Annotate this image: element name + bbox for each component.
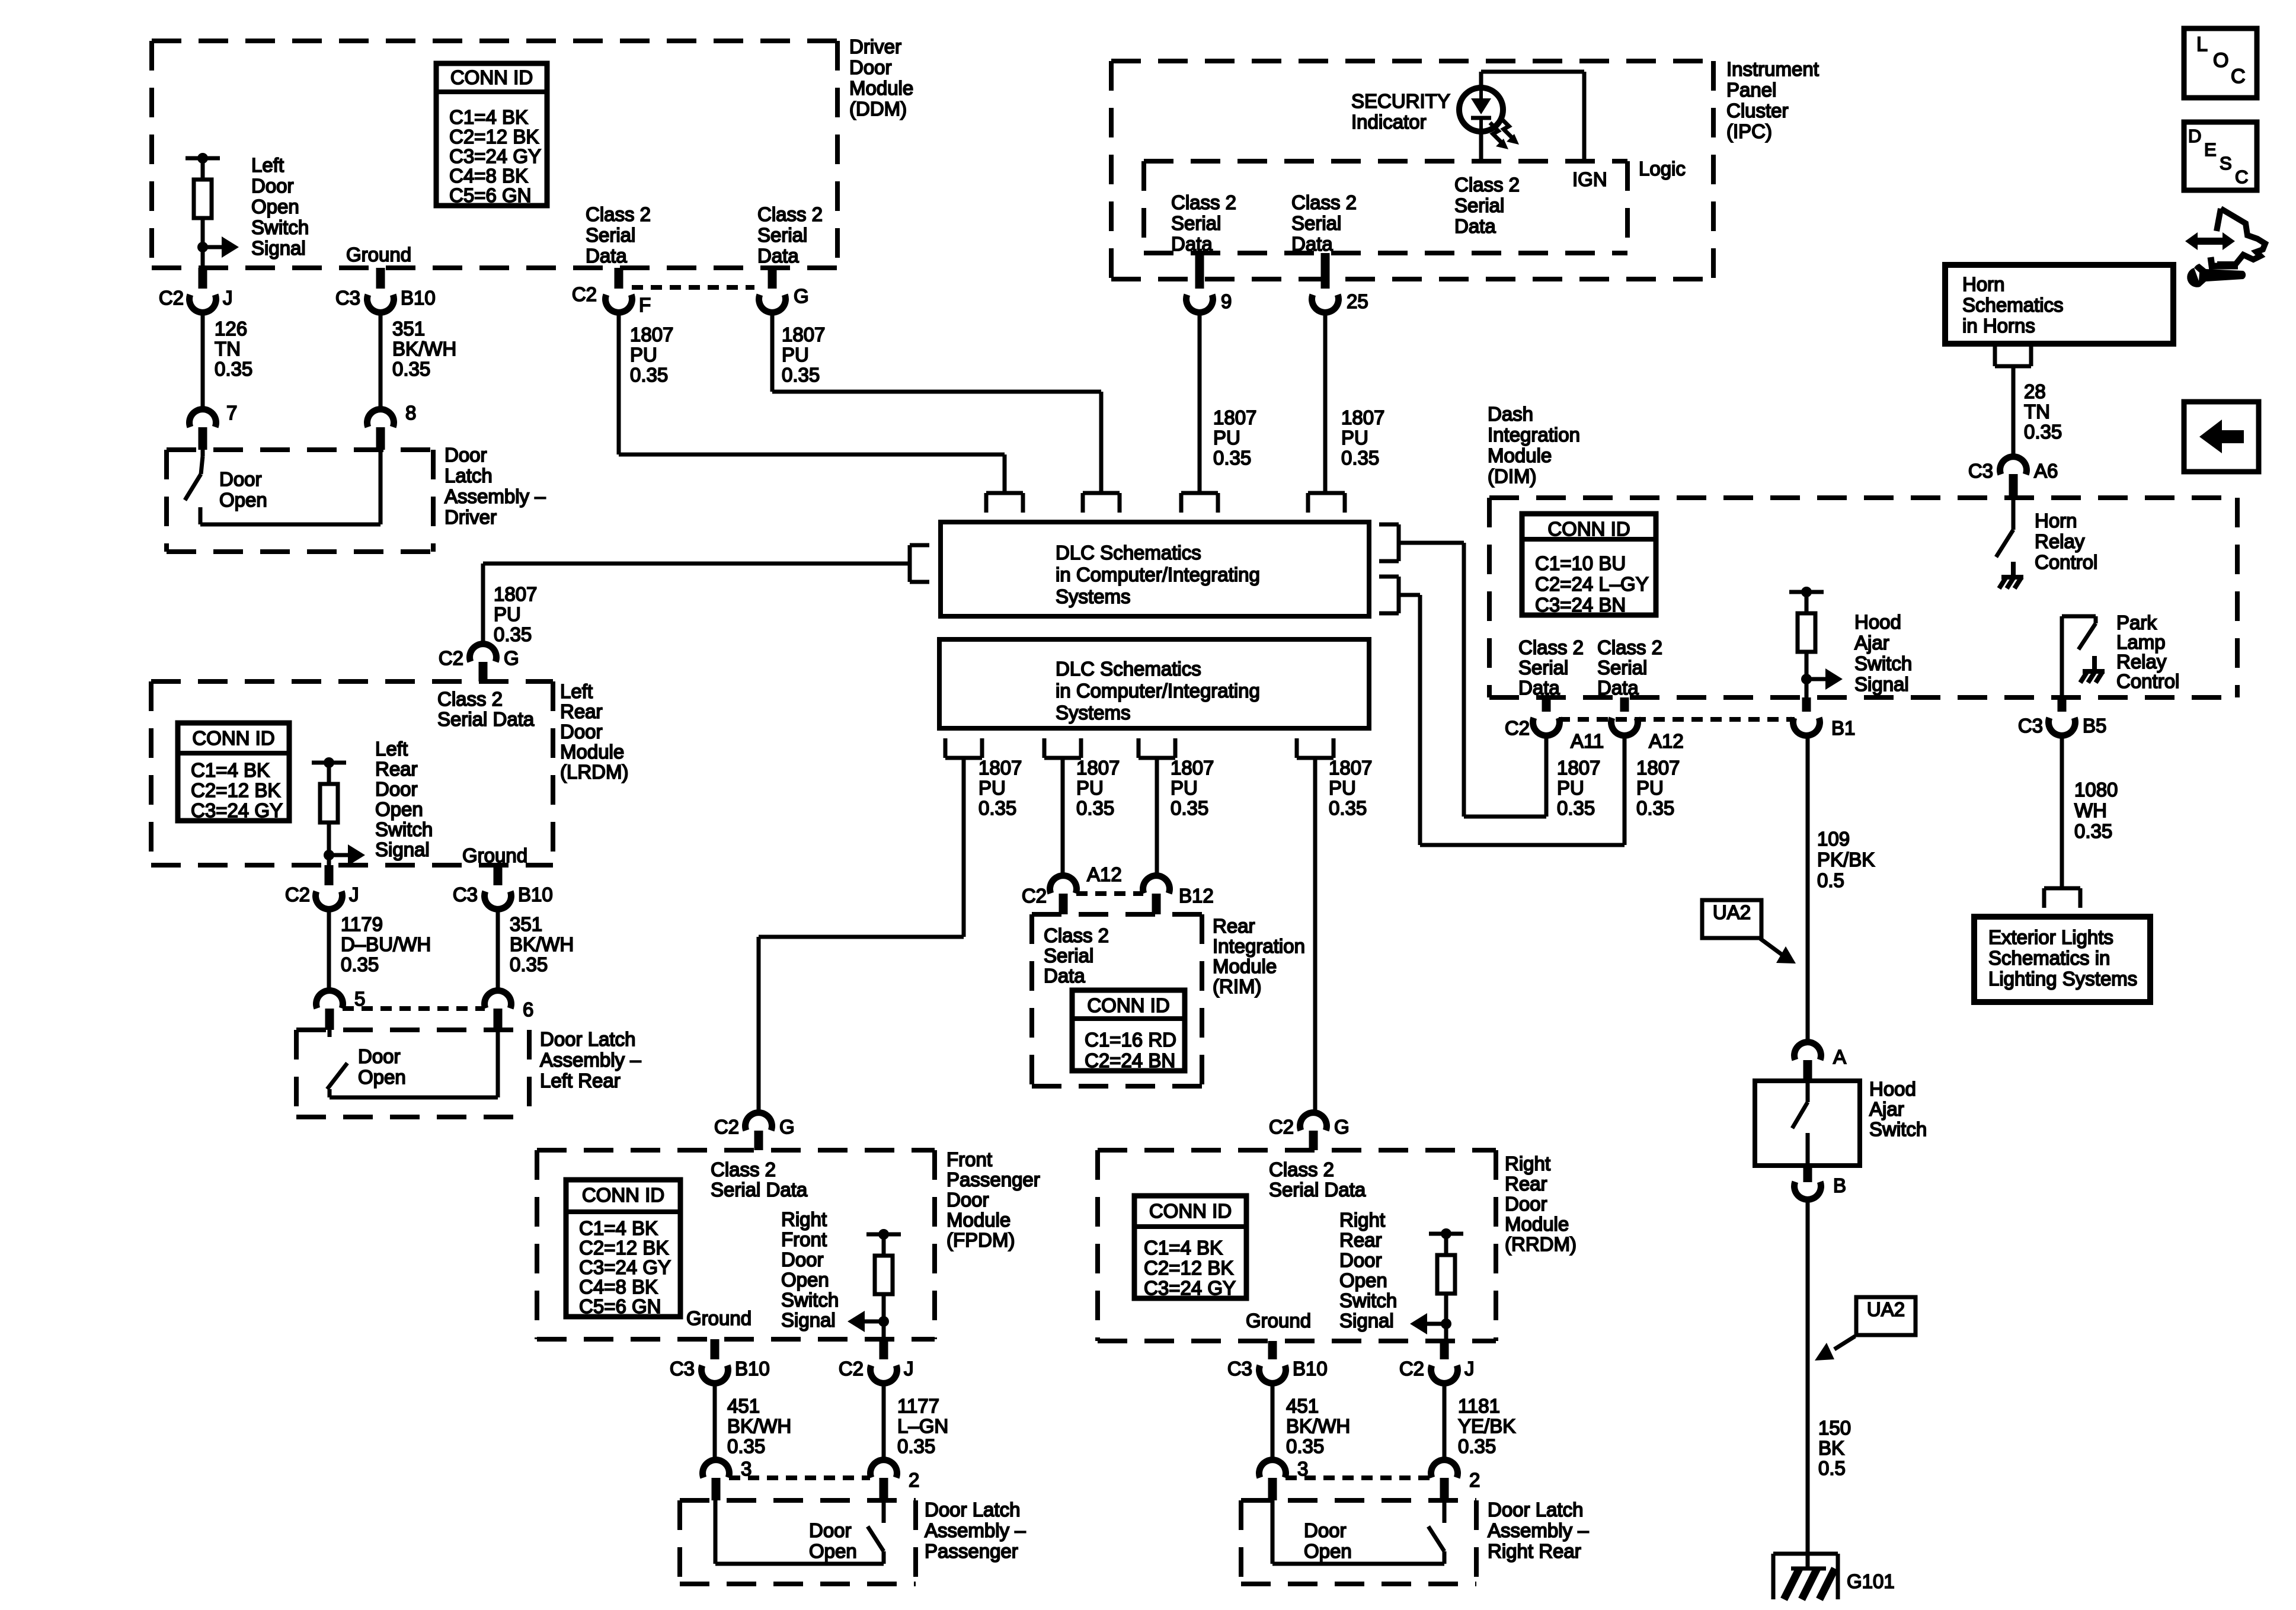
svg-text:C3=24 BN: C3=24 BN bbox=[1535, 594, 1626, 616]
svg-text:A: A bbox=[1833, 1046, 1846, 1068]
svg-text:C3: C3 bbox=[670, 1358, 695, 1379]
connector G (DDM) bbox=[759, 268, 809, 312]
wire DLC to A11 bbox=[1399, 543, 1546, 817]
svg-text:Class 2: Class 2 bbox=[1454, 174, 1520, 196]
label Park Lamp Relay Control bbox=[2116, 612, 2179, 692]
svg-text:in Horns: in Horns bbox=[1962, 315, 2035, 337]
svg-text:1181: 1181 bbox=[1458, 1395, 1500, 1417]
svg-text:Serial: Serial bbox=[1171, 212, 1221, 234]
svg-text:Open: Open bbox=[375, 798, 423, 820]
svg-text:in Computer/Integrating: in Computer/Integrating bbox=[1056, 680, 1260, 702]
svg-text:Door: Door bbox=[849, 56, 892, 78]
svg-text:Left: Left bbox=[375, 738, 408, 760]
connector C3 B10 (RRDM) bbox=[1227, 1341, 1328, 1383]
label Hood Ajar Switch bbox=[1869, 1078, 1927, 1140]
svg-text:Integration: Integration bbox=[1488, 424, 1580, 446]
DLC box upper bbox=[941, 522, 1369, 616]
svg-text:Panel: Panel bbox=[1726, 79, 1776, 101]
ground G101 bbox=[1773, 1554, 1838, 1599]
resistor left rear door open switch bbox=[312, 757, 346, 855]
label 1807 PU 0.35 (pinD) bbox=[1329, 757, 1372, 819]
svg-text:Integration: Integration bbox=[1213, 935, 1305, 957]
wire 351 BK/WH LRDM bbox=[496, 909, 500, 991]
svg-text:0.35: 0.35 bbox=[215, 358, 252, 380]
svg-text:Switch: Switch bbox=[781, 1289, 839, 1311]
svg-text:C2: C2 bbox=[839, 1358, 864, 1379]
svg-text:1080: 1080 bbox=[2074, 779, 2118, 801]
svg-text:1807: 1807 bbox=[1341, 406, 1384, 428]
svg-text:Serial: Serial bbox=[1454, 194, 1504, 216]
junction + arrow hood ajar bbox=[1801, 668, 1843, 697]
svg-text:351: 351 bbox=[510, 913, 542, 935]
icon back arrow box bbox=[2184, 402, 2259, 472]
wire 150 BK bbox=[1806, 1200, 1810, 1554]
label Class 2 Serial Data DDM-G bbox=[757, 203, 823, 267]
svg-text:Hood: Hood bbox=[1869, 1078, 1916, 1100]
svg-text:PU: PU bbox=[494, 603, 521, 625]
connector C2 J (RRDM) bbox=[1399, 1341, 1475, 1383]
pin up-2 bbox=[1083, 493, 1120, 513]
label 1080 WH 0.35 bbox=[2074, 779, 2118, 842]
svg-text:S: S bbox=[2220, 153, 2232, 174]
module FPDM box bbox=[537, 1150, 935, 1339]
wire 1179 D-BU/WH bbox=[327, 909, 331, 991]
label Class 2 Serial Data RRDM bbox=[1269, 1158, 1366, 1201]
switch door open left rear bbox=[327, 1030, 498, 1097]
svg-text:B1: B1 bbox=[1831, 717, 1855, 739]
svg-text:Door: Door bbox=[445, 444, 487, 466]
svg-text:Door: Door bbox=[1339, 1249, 1382, 1271]
dotted link 3-2 RR bbox=[1285, 1475, 1431, 1480]
pin down-C bbox=[1139, 738, 1175, 758]
svg-text:Data: Data bbox=[1171, 233, 1213, 255]
svg-text:(RIM): (RIM) bbox=[1213, 975, 1261, 997]
label Door Open driver bbox=[219, 468, 267, 511]
svg-text:J: J bbox=[223, 287, 233, 309]
svg-text:C2: C2 bbox=[1505, 717, 1530, 739]
CONN ID table RRDM bbox=[1134, 1196, 1246, 1299]
connector C2 A11 (DIM) bbox=[1505, 697, 1604, 752]
wire 1807 PU from 25 bbox=[1323, 312, 1328, 493]
label Class 2 Serial Data RIM bbox=[1044, 924, 1109, 987]
svg-text:D–BU/WH: D–BU/WH bbox=[341, 933, 431, 955]
module RRDM box bbox=[1098, 1150, 1496, 1341]
svg-text:Class 2: Class 2 bbox=[1291, 191, 1357, 213]
label Hood Ajar Switch Signal bbox=[1854, 611, 1912, 695]
label 28 TN 0.35 bbox=[2024, 380, 2062, 443]
svg-text:PU: PU bbox=[978, 777, 1006, 799]
svg-text:Data: Data bbox=[1044, 965, 1085, 987]
svg-text:Right: Right bbox=[1505, 1153, 1550, 1174]
label Ground DDM bbox=[346, 244, 411, 265]
svg-text:CONN ID: CONN ID bbox=[1087, 994, 1169, 1016]
module IPC box bbox=[1111, 61, 1713, 279]
connector 2 latch RR bbox=[1431, 1460, 1480, 1500]
svg-text:Open: Open bbox=[781, 1269, 829, 1291]
label Ground RRDM bbox=[1246, 1310, 1311, 1331]
door latch assembly passenger box bbox=[680, 1500, 916, 1584]
connector C2 F bbox=[572, 268, 651, 316]
svg-text:Horn: Horn bbox=[2035, 510, 2077, 532]
svg-text:Class 2: Class 2 bbox=[1044, 924, 1109, 946]
label Class 2 Serial Data DIM-1 bbox=[1518, 636, 1584, 699]
svg-text:Open: Open bbox=[1304, 1540, 1352, 1562]
label 1807 PU 0.35 (G) bbox=[782, 324, 825, 386]
svg-text:Door: Door bbox=[375, 778, 418, 800]
svg-text:Assembly –: Assembly – bbox=[445, 485, 546, 507]
svg-text:Instrument: Instrument bbox=[1726, 58, 1819, 80]
svg-text:PU: PU bbox=[630, 344, 657, 366]
dotted link A12-B12 bbox=[1076, 891, 1143, 896]
svg-text:Passenger: Passenger bbox=[946, 1169, 1040, 1190]
svg-text:0.35: 0.35 bbox=[1557, 797, 1595, 819]
connector 9 IPC bbox=[1187, 253, 1232, 312]
wire pinD to RRDM G bbox=[1313, 758, 1318, 1112]
svg-text:Signal: Signal bbox=[1339, 1310, 1394, 1331]
svg-text:Control: Control bbox=[2116, 670, 2179, 692]
resistor right rear door open switch bbox=[1429, 1228, 1463, 1324]
wire 1807 PU below A11 bbox=[1544, 736, 1549, 817]
connector C2 J (FPDM) bbox=[839, 1339, 914, 1383]
svg-text:0.5: 0.5 bbox=[1818, 1457, 1846, 1479]
svg-text:Door Latch: Door Latch bbox=[1488, 1499, 1583, 1521]
switch door open passenger bbox=[715, 1500, 884, 1564]
connector 3 latch RR bbox=[1259, 1458, 1309, 1500]
connector C3 B10 (DDM) bbox=[335, 268, 436, 312]
dotted link 5-6 bbox=[343, 1006, 485, 1011]
svg-text:Data: Data bbox=[757, 245, 799, 267]
svg-text:0.35: 0.35 bbox=[782, 364, 820, 386]
svg-text:Right: Right bbox=[1339, 1209, 1385, 1231]
svg-text:Right Rear: Right Rear bbox=[1488, 1540, 1581, 1562]
label Ground FPDM bbox=[686, 1307, 752, 1329]
connector C3 A6 bbox=[1968, 380, 2058, 498]
svg-text:Serial: Serial bbox=[1291, 212, 1341, 234]
svg-text:C2=12 BK: C2=12 BK bbox=[191, 779, 280, 801]
wire 1181 YE/BK bbox=[1443, 1383, 1447, 1460]
CONN ID table LRDM bbox=[178, 723, 289, 821]
svg-text:C1=10 BU: C1=10 BU bbox=[1535, 552, 1626, 574]
svg-text:Class 2: Class 2 bbox=[711, 1158, 776, 1180]
svg-text:C2=24 BN: C2=24 BN bbox=[1085, 1049, 1175, 1071]
svg-text:Switch: Switch bbox=[1869, 1118, 1927, 1140]
wire LED to IGN bbox=[1481, 72, 1584, 161]
svg-text:Door: Door bbox=[358, 1045, 401, 1067]
label Instrument Panel Cluster (IPC) bbox=[1726, 58, 1819, 142]
door latch assembly driver box bbox=[167, 450, 433, 552]
svg-text:(FPDM): (FPDM) bbox=[946, 1229, 1015, 1251]
wire 451 BK/WH FPDM bbox=[713, 1383, 717, 1460]
svg-text:Rear: Rear bbox=[375, 758, 418, 780]
icon DESC box bbox=[2184, 122, 2257, 190]
svg-text:L–GN: L–GN bbox=[897, 1415, 948, 1437]
UA2 callout lower bbox=[1815, 1297, 1916, 1361]
svg-text:Door: Door bbox=[1505, 1193, 1547, 1215]
label Door Latch Assembly Left Rear bbox=[540, 1028, 641, 1092]
label Class 2 Serial Data IPC-3 bbox=[1454, 174, 1520, 237]
svg-text:Data: Data bbox=[1597, 677, 1639, 699]
label 1177 L-GN 0.35 bbox=[897, 1395, 948, 1457]
svg-text:0.35: 0.35 bbox=[978, 797, 1016, 819]
svg-text:Assembly –: Assembly – bbox=[540, 1049, 641, 1071]
svg-text:UA2: UA2 bbox=[1867, 1298, 1905, 1320]
svg-text:B10: B10 bbox=[1293, 1358, 1328, 1379]
svg-text:Rear: Rear bbox=[1213, 915, 1255, 937]
label 1807 PU 0.35 (9) bbox=[1213, 406, 1256, 469]
svg-text:1807: 1807 bbox=[494, 583, 537, 605]
svg-text:Schematics: Schematics bbox=[1962, 294, 2064, 316]
LED security indicator bbox=[1459, 88, 1503, 132]
svg-text:B10: B10 bbox=[401, 287, 436, 309]
svg-text:Serial Data: Serial Data bbox=[1269, 1179, 1366, 1201]
ground chassis park lamp bbox=[2080, 656, 2105, 683]
LED light arrows bbox=[1490, 118, 1519, 149]
svg-text:(IPC): (IPC) bbox=[1726, 120, 1772, 142]
svg-text:TN: TN bbox=[215, 338, 241, 360]
svg-text:SECURITY: SECURITY bbox=[1351, 90, 1450, 112]
svg-text:J: J bbox=[904, 1358, 914, 1379]
svg-text:Class 2: Class 2 bbox=[1269, 1158, 1334, 1180]
resistor left door open switch bbox=[186, 153, 220, 247]
svg-text:BK/WH: BK/WH bbox=[510, 933, 574, 955]
pin bracket exterior lights bbox=[2044, 888, 2080, 908]
label Door Open passenger bbox=[809, 1519, 857, 1562]
svg-text:Open: Open bbox=[809, 1540, 857, 1562]
svg-text:G: G bbox=[1334, 1116, 1350, 1138]
svg-text:1807: 1807 bbox=[1076, 757, 1120, 779]
label Class 2 Serial Data FPDM bbox=[711, 1158, 808, 1201]
label Dash Integration Module (DIM) bbox=[1488, 403, 1580, 487]
svg-text:C2=24 L–GY: C2=24 L–GY bbox=[1535, 573, 1649, 595]
svg-text:PU: PU bbox=[1341, 427, 1368, 449]
door latch assembly right rear box bbox=[1241, 1500, 1476, 1584]
svg-text:G: G bbox=[504, 647, 519, 669]
svg-text:C3: C3 bbox=[2018, 715, 2043, 737]
junction + arrow FPDM bbox=[848, 1311, 889, 1339]
resistor hood ajar switch signal bbox=[1789, 587, 1824, 679]
svg-text:Door Latch: Door Latch bbox=[925, 1499, 1020, 1521]
module DIM box bbox=[1489, 498, 2237, 697]
label G101 bbox=[1847, 1570, 1895, 1592]
svg-text:Ground: Ground bbox=[462, 844, 527, 866]
svg-text:Left Rear: Left Rear bbox=[540, 1070, 621, 1092]
label DLC Schematics upper bbox=[1056, 542, 1260, 607]
svg-text:CONN ID: CONN ID bbox=[450, 66, 533, 88]
svg-text:F: F bbox=[639, 294, 651, 316]
svg-text:Ground: Ground bbox=[1246, 1310, 1311, 1331]
svg-text:A12: A12 bbox=[1087, 863, 1122, 885]
svg-text:Door: Door bbox=[809, 1519, 852, 1541]
svg-text:C3: C3 bbox=[1968, 460, 1993, 482]
connector A12 (DIM) bbox=[1611, 697, 1683, 752]
svg-text:0.35: 0.35 bbox=[1341, 447, 1379, 469]
svg-text:C2: C2 bbox=[1022, 885, 1047, 907]
svg-text:0.35: 0.35 bbox=[2024, 421, 2062, 443]
svg-text:in Computer/Integrating: in Computer/Integrating bbox=[1056, 564, 1260, 585]
svg-text:Signal: Signal bbox=[375, 838, 430, 860]
connector 3 latch pass bbox=[703, 1458, 752, 1500]
svg-text:PU: PU bbox=[782, 344, 809, 366]
svg-text:Door: Door bbox=[781, 1249, 824, 1270]
wire 1177 L-GN bbox=[882, 1383, 886, 1460]
svg-text:2: 2 bbox=[909, 1469, 919, 1491]
svg-text:Module: Module bbox=[1213, 955, 1277, 977]
svg-text:C2: C2 bbox=[439, 647, 463, 669]
CONN ID table DIM bbox=[1522, 514, 1656, 616]
svg-text:Ground: Ground bbox=[686, 1307, 752, 1329]
wire pinB to RIM A12 bbox=[1061, 758, 1065, 875]
svg-text:Schematics in: Schematics in bbox=[1988, 947, 2110, 969]
svg-text:C4=8 BK: C4=8 BK bbox=[579, 1276, 658, 1298]
svg-text:C2: C2 bbox=[1399, 1358, 1424, 1379]
svg-text:D: D bbox=[2188, 126, 2201, 146]
svg-text:Rear: Rear bbox=[560, 700, 603, 722]
svg-text:C2: C2 bbox=[1269, 1116, 1294, 1138]
svg-text:Dash: Dash bbox=[1488, 403, 1533, 425]
svg-text:Class 2: Class 2 bbox=[437, 688, 503, 710]
DLC box lower bbox=[939, 639, 1369, 728]
Exterior Lights box bbox=[1974, 917, 2150, 1002]
pin up-3 bbox=[1181, 493, 1218, 513]
svg-text:Open: Open bbox=[1339, 1269, 1387, 1291]
wire 1807 PU below A12 bbox=[1623, 736, 1627, 845]
connector 5 latch LR bbox=[316, 988, 366, 1030]
svg-text:YE/BK: YE/BK bbox=[1458, 1415, 1515, 1437]
svg-text:C5=6 GN: C5=6 GN bbox=[449, 184, 531, 206]
label Class 2 Serial Data LRDM bbox=[437, 688, 535, 730]
dotted link A11-A12-B1 bbox=[1559, 717, 1795, 722]
svg-text:C1=16 RD: C1=16 RD bbox=[1085, 1029, 1176, 1051]
svg-text:Switch: Switch bbox=[251, 216, 309, 238]
svg-text:Logic: Logic bbox=[1639, 158, 1686, 180]
svg-text:Systems: Systems bbox=[1056, 585, 1131, 607]
svg-text:0.35: 0.35 bbox=[1458, 1435, 1496, 1457]
svg-text:Hood: Hood bbox=[1854, 611, 1901, 633]
svg-text:Switch: Switch bbox=[375, 818, 433, 840]
svg-text:B5: B5 bbox=[2083, 715, 2106, 737]
svg-text:Latch: Latch bbox=[445, 465, 493, 486]
svg-text:Switch: Switch bbox=[1339, 1289, 1397, 1311]
label Door Latch Assembly Driver bbox=[445, 444, 546, 528]
label 109 PK/BK 0.5 bbox=[1817, 828, 1875, 891]
resistor right front door open switch bbox=[866, 1229, 901, 1321]
pin right upper DLC 1 bbox=[1379, 524, 1399, 561]
svg-text:1807: 1807 bbox=[1213, 406, 1256, 428]
svg-text:Ajar: Ajar bbox=[1869, 1098, 1904, 1120]
svg-text:6: 6 bbox=[523, 998, 533, 1020]
svg-text:(DDM): (DDM) bbox=[849, 98, 907, 120]
connector 25 IPC bbox=[1312, 253, 1368, 312]
label Ground LRDM bbox=[462, 844, 527, 866]
svg-text:0.35: 0.35 bbox=[494, 623, 532, 645]
svg-text:L: L bbox=[2196, 33, 2208, 56]
label Driver Door Module (DDM) bbox=[849, 36, 913, 120]
svg-text:C3: C3 bbox=[335, 287, 360, 309]
label Left Rear Door Open Switch Signal bbox=[375, 738, 433, 860]
connector 7 latch bbox=[190, 402, 238, 450]
connector B12 (RIM) bbox=[1143, 876, 1214, 914]
wire 451 BK/WH RRDM bbox=[1271, 1383, 1275, 1460]
connector C2 G (RRDM) bbox=[1269, 1113, 1350, 1150]
svg-text:Right: Right bbox=[781, 1208, 827, 1230]
svg-text:Module: Module bbox=[560, 741, 624, 763]
svg-text:Driver: Driver bbox=[445, 506, 497, 528]
svg-text:Ajar: Ajar bbox=[1854, 632, 1889, 654]
label 150 BK 0.5 bbox=[1818, 1417, 1851, 1479]
svg-text:Door: Door bbox=[1304, 1519, 1347, 1541]
svg-text:Data: Data bbox=[1291, 233, 1333, 255]
label Door Open right rear bbox=[1304, 1519, 1352, 1562]
svg-text:Door: Door bbox=[219, 468, 262, 490]
svg-text:C2: C2 bbox=[159, 287, 184, 309]
svg-text:Signal: Signal bbox=[251, 237, 306, 259]
label 351 BK/WH 0.35 LRDM bbox=[510, 913, 574, 975]
pin up-4 bbox=[1308, 493, 1345, 513]
svg-text:0.5: 0.5 bbox=[1817, 869, 1844, 891]
switch hood ajar bbox=[1792, 1081, 1808, 1166]
svg-text:PU: PU bbox=[1329, 777, 1356, 799]
svg-text:1807: 1807 bbox=[782, 324, 825, 345]
svg-text:2: 2 bbox=[1469, 1469, 1480, 1491]
pin down-B bbox=[1044, 738, 1081, 758]
svg-text:J: J bbox=[349, 884, 359, 905]
label 126 TN 0.35 bbox=[215, 318, 252, 380]
svg-text:451: 451 bbox=[727, 1395, 760, 1417]
svg-text:451: 451 bbox=[1286, 1395, 1319, 1417]
junction + signal arrow DDM bbox=[197, 236, 239, 268]
connector C3 B5 (DIM) bbox=[2018, 697, 2107, 737]
svg-text:Class 2: Class 2 bbox=[586, 203, 651, 225]
svg-text:Module: Module bbox=[1505, 1213, 1569, 1235]
svg-text:0.35: 0.35 bbox=[510, 953, 548, 975]
label 351 BK/WH 0.35 DDM bbox=[392, 318, 456, 380]
svg-text:Control: Control bbox=[2035, 551, 2097, 573]
svg-text:Lighting Systems: Lighting Systems bbox=[1988, 968, 2137, 990]
svg-text:1807: 1807 bbox=[1636, 757, 1680, 779]
connector C2 A12 (RIM) bbox=[1022, 863, 1122, 914]
svg-text:Assembly –: Assembly – bbox=[1488, 1519, 1589, 1541]
svg-text:Open: Open bbox=[358, 1066, 406, 1088]
svg-text:C2: C2 bbox=[572, 283, 597, 305]
label Rear Integration Module (RIM) bbox=[1213, 915, 1305, 997]
wire pinC to RIM B12 bbox=[1155, 758, 1159, 875]
svg-text:28: 28 bbox=[2024, 380, 2046, 402]
svg-text:Signal: Signal bbox=[1854, 673, 1909, 695]
switch door open right rear bbox=[1272, 1500, 1444, 1564]
svg-text:Class 2: Class 2 bbox=[1518, 636, 1584, 658]
label Horn Relay Control bbox=[2035, 510, 2097, 573]
wire 126 TN bbox=[201, 312, 205, 409]
svg-text:A11: A11 bbox=[1571, 730, 1604, 752]
svg-text:Exterior Lights: Exterior Lights bbox=[1988, 926, 2113, 948]
svg-text:1807: 1807 bbox=[1557, 757, 1600, 779]
svg-text:CONN ID: CONN ID bbox=[582, 1184, 664, 1206]
svg-text:UA2: UA2 bbox=[1713, 901, 1751, 923]
connector 8 latch bbox=[367, 402, 417, 450]
svg-text:PU: PU bbox=[1213, 427, 1240, 449]
svg-text:BK/WH: BK/WH bbox=[1286, 1415, 1350, 1437]
label 1807 PU 0.35 (pinA) bbox=[978, 757, 1022, 819]
pin up-1 bbox=[986, 493, 1023, 513]
svg-text:Serial Data: Serial Data bbox=[711, 1179, 808, 1201]
svg-text:0.35: 0.35 bbox=[1329, 797, 1367, 819]
svg-text:C: C bbox=[2235, 167, 2248, 187]
svg-text:Class 2: Class 2 bbox=[757, 203, 823, 225]
label Right Rear Door Module (RRDM) bbox=[1505, 1153, 1576, 1255]
svg-text:PU: PU bbox=[1171, 777, 1198, 799]
svg-text:C1=4 BK: C1=4 BK bbox=[449, 106, 528, 128]
ground chassis horn relay bbox=[1999, 562, 2023, 588]
